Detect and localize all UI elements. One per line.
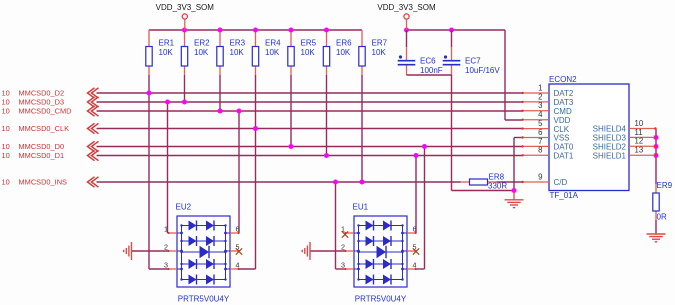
junction xyxy=(147,91,152,96)
svg-text:10K: 10K xyxy=(159,48,174,57)
svg-text:SHIELD1: SHIELD1 xyxy=(593,151,627,160)
capacitor EC7 10uF/16V xyxy=(443,55,501,74)
svg-text:6: 6 xyxy=(236,225,240,234)
junction xyxy=(253,126,258,131)
wire ER2 bottom lead xyxy=(184,66,186,75)
svg-text:TF_01A: TF_01A xyxy=(550,191,579,200)
svg-text:7: 7 xyxy=(538,137,542,146)
junction xyxy=(182,28,187,33)
wire ER3 top lead xyxy=(219,30,221,47)
junction xyxy=(182,100,187,105)
wire ER4 top lead xyxy=(255,30,257,47)
svg-text:MMCSD0_D2: MMCSD0_D2 xyxy=(19,88,65,97)
TVS array EU1 PRTR5V0U4Y xyxy=(341,203,417,304)
svg-text:330R: 330R xyxy=(488,182,507,191)
svg-text:VDD: VDD xyxy=(554,116,571,125)
svg-text:ER2: ER2 xyxy=(194,39,210,48)
svg-text:CLK: CLK xyxy=(554,125,570,134)
capacitor EC6 100nF xyxy=(398,55,443,74)
svg-text:10uF/16V: 10uF/16V xyxy=(465,66,500,75)
wire VDD_3V3_SOM rail left xyxy=(149,29,362,31)
ground EU1 pin2 xyxy=(302,242,310,260)
port 10 MMCSD0_D1 xyxy=(2,150,99,160)
svg-text:10K: 10K xyxy=(336,48,351,57)
svg-text:CMD: CMD xyxy=(554,107,572,116)
svg-text:MMCSD0_CLK: MMCSD0_CLK xyxy=(19,124,70,133)
wire ER5 bottom lead xyxy=(290,66,292,75)
no-connect X EU1 pin5 xyxy=(413,248,419,254)
junction xyxy=(654,135,659,140)
svg-text:SHIELD4: SHIELD4 xyxy=(593,125,627,134)
power VDD_3V3_SOM left xyxy=(156,3,215,30)
svg-text:ER5: ER5 xyxy=(301,39,317,48)
svg-text:10K: 10K xyxy=(372,48,387,57)
junction xyxy=(289,144,294,149)
no-connect X EU2 pin5 xyxy=(236,248,242,254)
port 10 MMCSD0_D3 xyxy=(2,97,99,107)
wire EU1 pin3 riser xyxy=(335,182,337,269)
junction xyxy=(237,109,242,114)
junction xyxy=(218,109,223,114)
svg-text:10: 10 xyxy=(635,119,644,128)
svg-text:EU2: EU2 xyxy=(176,203,192,212)
junction xyxy=(253,28,258,33)
svg-text:ER9: ER9 xyxy=(657,181,673,190)
svg-text:MMCSD0_CMD: MMCSD0_CMD xyxy=(19,106,72,115)
svg-text:PRTR5V0U4Y: PRTR5V0U4Y xyxy=(355,294,407,303)
junction xyxy=(324,153,329,158)
wire VDD to ECON2 pin4 xyxy=(504,30,506,120)
svg-text:9: 9 xyxy=(538,172,542,181)
svg-text:MMCSD0_D3: MMCSD0_D3 xyxy=(19,97,65,106)
wire EU1 pin2 to ground xyxy=(310,250,345,252)
wire ER6 bottom lead xyxy=(326,66,328,75)
svg-text:ECON2: ECON2 xyxy=(549,75,577,84)
wire ER3 bottom lead xyxy=(219,66,221,75)
svg-text:ER3: ER3 xyxy=(230,39,246,48)
svg-text:1: 1 xyxy=(538,83,542,92)
wire EU1 pin6 riser xyxy=(415,156,417,234)
svg-text:MMCSD0_D0: MMCSD0_D0 xyxy=(19,142,65,151)
wire SHIELD4 net xyxy=(655,129,657,156)
TVS array EU2 PRTR5V0U4Y xyxy=(164,203,240,304)
no-connect X EU1 pin1 xyxy=(342,231,348,237)
ground under ER9 xyxy=(647,234,666,242)
junction xyxy=(360,180,365,185)
svg-text:0R: 0R xyxy=(657,213,667,222)
wire MMCSD0_D1 net xyxy=(97,155,523,157)
svg-text:VDD_3V3_SOM: VDD_3V3_SOM xyxy=(377,3,436,12)
svg-text:DAT3: DAT3 xyxy=(554,98,574,107)
wire MMCSD0_CLK net xyxy=(97,128,523,130)
power VDD_3V3_SOM right xyxy=(377,3,436,30)
wire ER2 top lead xyxy=(184,30,186,47)
svg-text:SHIELD2: SHIELD2 xyxy=(593,143,627,152)
wire MMCSD0_CMD net xyxy=(97,110,523,112)
resistor ER4 10K xyxy=(252,39,281,67)
port 10 MMCSD0_D2 xyxy=(2,88,99,98)
svg-text:EC6: EC6 xyxy=(420,57,436,66)
junction xyxy=(324,28,329,33)
resistor ER6 10K xyxy=(323,39,352,67)
svg-text:3: 3 xyxy=(341,261,345,270)
svg-text:C/D: C/D xyxy=(554,178,568,187)
wire MMCSD0_D0 net xyxy=(97,146,523,148)
svg-text:SHIELD3: SHIELD3 xyxy=(593,134,627,143)
svg-text:3: 3 xyxy=(538,101,542,110)
port 10 MMCSD0_D0 xyxy=(2,141,99,151)
svg-text:ER8: ER8 xyxy=(489,173,505,182)
svg-text:ER7: ER7 xyxy=(372,39,388,48)
svg-text:10: 10 xyxy=(2,177,10,186)
svg-text:6: 6 xyxy=(538,128,542,137)
wire ER4 lead / EU2 pin4 riser xyxy=(255,66,257,75)
svg-text:1: 1 xyxy=(164,225,168,234)
wire cap ground rail xyxy=(407,74,452,76)
svg-text:EC7: EC7 xyxy=(465,57,481,66)
connector ECON2 TF_01A xyxy=(521,75,656,200)
svg-text:DAT2: DAT2 xyxy=(554,89,574,98)
wire MMCSD0_D3 net xyxy=(97,101,523,103)
wire ER9 to ground xyxy=(655,211,657,220)
svg-text:6: 6 xyxy=(413,225,417,234)
svg-text:2: 2 xyxy=(341,243,345,252)
svg-text:DAT0: DAT0 xyxy=(554,143,574,152)
svg-text:PRTR5V0U4Y: PRTR5V0U4Y xyxy=(178,294,230,303)
svg-text:5: 5 xyxy=(538,119,543,128)
resistor ER3 10K xyxy=(217,39,246,67)
wire MMCSD0_INS net xyxy=(97,181,461,183)
svg-text:ER1: ER1 xyxy=(159,39,175,48)
junction xyxy=(449,28,454,33)
wire ER5 top lead xyxy=(290,30,292,47)
svg-text:10: 10 xyxy=(2,151,10,160)
svg-text:VDD_3V3_SOM: VDD_3V3_SOM xyxy=(156,3,215,12)
svg-text:VSS: VSS xyxy=(554,134,570,143)
resistor ER1 10K xyxy=(146,39,175,67)
wire ER1 top lead xyxy=(148,30,150,47)
wire EU1 pin4 riser xyxy=(424,147,426,270)
svg-text:13: 13 xyxy=(635,146,644,155)
svg-text:4: 4 xyxy=(236,261,240,270)
svg-text:10: 10 xyxy=(2,106,10,115)
wire ER7 bottom lead xyxy=(361,66,363,75)
wire VDD_3V3_SOM rail right xyxy=(407,29,506,31)
wire ER8 to pin9 xyxy=(497,181,523,183)
wire ER6 top lead xyxy=(326,30,328,47)
svg-text:3: 3 xyxy=(164,261,168,270)
junction xyxy=(414,153,419,158)
svg-text:2: 2 xyxy=(538,92,542,101)
wire EC6 lead xyxy=(406,30,408,47)
resistor ER7 10K xyxy=(359,39,388,67)
junction xyxy=(165,100,170,105)
svg-text:EU1: EU1 xyxy=(353,203,369,212)
junction xyxy=(654,153,659,158)
svg-text:DAT1: DAT1 xyxy=(554,152,574,161)
svg-text:100nF: 100nF xyxy=(420,66,443,75)
wire EC7 lead xyxy=(451,30,453,47)
svg-text:10: 10 xyxy=(2,97,10,106)
svg-text:8: 8 xyxy=(538,146,542,155)
svg-text:MMCSD0_D1: MMCSD0_D1 xyxy=(19,151,65,160)
ground near ECON2 xyxy=(513,191,515,200)
junction xyxy=(512,188,517,193)
port 10 MMCSD0_CLK xyxy=(2,123,99,133)
svg-text:4: 4 xyxy=(538,110,543,119)
svg-text:10K: 10K xyxy=(301,48,316,57)
resistor ER9 0R xyxy=(653,193,659,211)
junction xyxy=(218,28,223,33)
wire VSS to ground xyxy=(514,137,522,139)
wire EU2 pin6 riser xyxy=(238,111,240,233)
resistor ER5 10K xyxy=(288,39,317,67)
wire EU2 pin2 to ground xyxy=(132,250,169,252)
svg-text:10: 10 xyxy=(2,88,10,97)
port 10 MMCSD0_INS xyxy=(2,177,99,187)
svg-text:10K: 10K xyxy=(265,48,280,57)
svg-text:10K: 10K xyxy=(194,48,209,57)
resistor ER2 10K xyxy=(181,39,210,67)
junction xyxy=(333,180,338,185)
junction xyxy=(404,28,409,33)
svg-text:12: 12 xyxy=(635,137,644,146)
svg-text:10: 10 xyxy=(2,142,10,151)
svg-text:10: 10 xyxy=(2,124,10,133)
wire MMCSD0_D2 net xyxy=(97,92,523,94)
svg-text:MMCSD0_INS: MMCSD0_INS xyxy=(19,177,68,186)
junction xyxy=(654,144,659,149)
wire shield bus to ER9 xyxy=(655,156,657,185)
svg-text:4: 4 xyxy=(413,261,417,270)
wire ER1 lead / EU2 pin3 riser xyxy=(148,66,150,75)
wire EU2 pin1 riser xyxy=(167,102,169,233)
port 10 MMCSD0_CMD xyxy=(2,106,99,116)
ground EU2 pin2 xyxy=(124,242,132,260)
svg-text:ER6: ER6 xyxy=(336,39,352,48)
junction xyxy=(422,144,427,149)
svg-text:2: 2 xyxy=(164,243,168,252)
svg-text:11: 11 xyxy=(635,128,643,137)
resistor ER8 330R xyxy=(461,181,470,183)
svg-text:10K: 10K xyxy=(230,48,245,57)
junction xyxy=(289,28,294,33)
wire ER7 top lead xyxy=(361,30,363,47)
svg-text:ER4: ER4 xyxy=(265,39,281,48)
